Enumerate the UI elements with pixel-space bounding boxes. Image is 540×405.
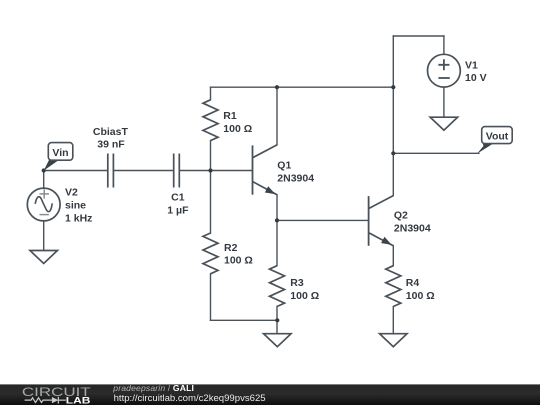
svg-text:R2: R2: [224, 242, 238, 254]
svg-text:Q1: Q1: [277, 160, 291, 172]
svg-text:LAB: LAB: [66, 396, 91, 405]
svg-text:R4: R4: [406, 277, 420, 289]
svg-text:1 µF: 1 µF: [167, 205, 189, 217]
svg-text:10 V: 10 V: [465, 72, 487, 84]
svg-text:Vout: Vout: [486, 130, 509, 142]
svg-text:Vin: Vin: [52, 147, 68, 159]
svg-text:pradeepsarin / GALI: pradeepsarin / GALI: [112, 383, 194, 393]
svg-text:V1: V1: [465, 59, 478, 71]
svg-text:http://circuitlab.com/c2keq99p: http://circuitlab.com/c2keq99pvs625: [114, 393, 266, 403]
svg-text:2N3904: 2N3904: [277, 172, 314, 184]
svg-text:C1: C1: [171, 192, 185, 204]
svg-text:Q2: Q2: [394, 210, 408, 222]
svg-text:1 kHz: 1 kHz: [65, 212, 92, 224]
svg-text:100 Ω: 100 Ω: [406, 290, 435, 302]
svg-text:R1: R1: [223, 110, 237, 122]
svg-text:100 Ω: 100 Ω: [290, 290, 319, 302]
svg-text:100 Ω: 100 Ω: [224, 255, 253, 267]
svg-text:R3: R3: [290, 277, 304, 289]
svg-text:sine: sine: [65, 199, 86, 211]
svg-text:CbiasT: CbiasT: [93, 126, 129, 138]
svg-text:2N3904: 2N3904: [394, 222, 431, 234]
svg-text:39 nF: 39 nF: [97, 139, 125, 151]
svg-text:100 Ω: 100 Ω: [223, 123, 252, 135]
svg-text:V2: V2: [65, 187, 78, 199]
